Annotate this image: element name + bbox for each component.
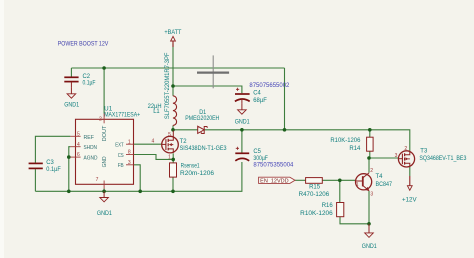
global label EN_12VDD (259, 177, 295, 184)
junction node L1/D1/T2 drain (171, 128, 175, 132)
svg-text:GND1: GND1 (97, 211, 113, 217)
transistor T4 BC847 (356, 168, 393, 197)
wire +BATT vertical (172, 44, 174, 87)
svg-text:FB: FB (118, 163, 124, 169)
svg-text:5: 5 (77, 131, 80, 137)
svg-text:5: 5 (168, 132, 171, 138)
wire BATT to C4 (173, 86, 242, 93)
svg-text:T4: T4 (376, 174, 384, 180)
svg-text:GND1: GND1 (235, 119, 251, 125)
junction node gnd FB (138, 190, 142, 194)
wire FB down (134, 165, 141, 192)
svg-text:C4: C4 (253, 91, 261, 97)
wire EXT to T2 gate (134, 143, 163, 145)
pin 7 GND (96, 156, 108, 188)
capacitor C3 (29, 160, 62, 173)
svg-text:1: 1 (168, 155, 171, 161)
resistor Rsense1 R20m-1206 (170, 163, 215, 177)
power +BATT (164, 30, 181, 47)
wire DOUT to rail (103, 68, 105, 114)
pin 8 CS (118, 150, 134, 159)
junction node BATT/C4/L1 (171, 84, 175, 88)
wire T3 source down (409, 167, 411, 176)
svg-text:SLF7055T-220M1R7-3PF: SLF7055T-220M1R7-3PF (165, 52, 171, 119)
svg-text:SIS438DN-T1-GE3: SIS438DN-T1-GE3 (180, 146, 228, 152)
svg-text:C2: C2 (83, 74, 91, 80)
transistor T3 SQ3468EV-T1_BE3 (395, 146, 467, 167)
svg-text:2: 2 (99, 117, 102, 123)
svg-text:PMEG2020EH: PMEG2020EH (185, 116, 219, 122)
resistor R14 R10K-1206 (330, 137, 373, 152)
inductor L1 (148, 52, 177, 125)
wire gnd rail (35, 162, 242, 191)
junction node R15/R16/T4 base (338, 179, 342, 183)
wire R14 bottom lead (369, 151, 371, 158)
svg-text:POWER BOOST 12V: POWER BOOST 12V (58, 41, 109, 48)
wire to T3 gate (369, 157, 399, 159)
svg-text:+12V: +12V (402, 197, 417, 203)
transistor T2 SIS438DN-T1-GE3 (152, 131, 228, 161)
wire L1 top lead (172, 86, 174, 96)
svg-text:R15: R15 (309, 185, 321, 191)
svg-text:4: 4 (152, 139, 155, 145)
cursor crosshair (197, 55, 229, 88)
wire R14 top lead (369, 130, 371, 137)
junction node rail drop (283, 128, 287, 132)
wire top rail V+ (71, 67, 284, 69)
wire U1 GND pin to rail (103, 189, 105, 192)
svg-text:SQ3468EV-T1_BE3: SQ3468EV-T1_BE3 (419, 156, 467, 162)
junction node R14 top (368, 128, 372, 132)
ground GND1 under T4 (362, 224, 378, 250)
svg-text:3: 3 (128, 160, 131, 166)
ground GND1 under C4 (235, 104, 251, 126)
wire EN label to R15 (295, 179, 306, 181)
pin 2 DOUT (99, 114, 108, 142)
junction node SHDN/AGND (67, 155, 71, 159)
wire T2 source to Rsense (172, 153, 174, 163)
svg-text:R10K-1206: R10K-1206 (300, 211, 333, 217)
svg-text:0.1µF: 0.1µF (46, 167, 61, 173)
pin 5 REF (70, 131, 94, 140)
wire AGND (69, 156, 71, 158)
power +12V (402, 176, 417, 203)
junction node gnd Rsense (171, 190, 175, 194)
svg-text:1: 1 (128, 139, 131, 145)
svg-text:Rsense1: Rsense1 (181, 163, 201, 169)
svg-text:SHDN: SHDN (84, 145, 98, 151)
svg-text:6: 6 (77, 152, 80, 158)
svg-text:U1: U1 (104, 107, 113, 113)
pin 1 EXT (115, 139, 133, 148)
ground GND1 under U1 (97, 191, 113, 217)
junction node T2 source/CS (171, 158, 175, 162)
svg-text:8: 8 (128, 150, 131, 156)
wire T4 collector up (368, 158, 370, 173)
pin 3 FB (118, 160, 134, 169)
svg-text:+BATT: +BATT (164, 30, 181, 36)
svg-text:0.1µF: 0.1µF (83, 81, 96, 87)
svg-text:3: 3 (370, 191, 373, 197)
svg-text:3: 3 (395, 153, 398, 159)
svg-text:R20m-1206: R20m-1206 (180, 171, 215, 177)
wire C2 top lead (70, 68, 72, 77)
svg-text:2: 2 (370, 168, 373, 174)
wire R15 to T4 base (322, 179, 355, 181)
svg-text:GND1: GND1 (64, 102, 80, 108)
pin 6 AGND (70, 152, 97, 161)
svg-text:L1: L1 (153, 109, 160, 115)
svg-text:GND: GND (102, 156, 108, 167)
wire Rsense bottom (172, 177, 174, 191)
svg-text:R14: R14 (349, 146, 361, 152)
junction node R16/T4 emitter/GND (367, 222, 371, 226)
op-amp U1 MAX1771ESA+ box (76, 119, 134, 184)
diode D1 PMEG2020EH (185, 110, 219, 134)
svg-text:AGND: AGND (84, 156, 98, 162)
wire C3 bottom to gnd rail (34, 169, 36, 191)
junction node gnd U1 (102, 190, 106, 194)
svg-text:875075355004: 875075355004 (253, 162, 294, 168)
svg-text:REF: REF (84, 135, 95, 141)
svg-text:C5: C5 (253, 149, 261, 155)
svg-text:7: 7 (96, 177, 99, 183)
svg-text:2: 2 (404, 146, 407, 152)
svg-text:875075655002: 875075655002 (249, 83, 290, 89)
svg-text:R16: R16 (322, 203, 334, 209)
wire CS to T2 source (134, 155, 174, 160)
wire output rail (173, 130, 410, 151)
wire R16 top lead (339, 180, 341, 202)
svg-text:EN_12VDD: EN_12VDD (260, 179, 289, 185)
svg-text:R470-1206: R470-1206 (299, 192, 330, 198)
svg-text:T3: T3 (420, 149, 428, 155)
resistor R15 R470-1206 (299, 178, 330, 199)
svg-text:R10K-1206: R10K-1206 (330, 138, 361, 144)
svg-text:MAX1771ESA+: MAX1771ESA+ (104, 113, 140, 119)
wire L1 bottom lead (172, 125, 174, 129)
capacitor C2 (64, 74, 95, 88)
junction node DOUT/rail (102, 66, 106, 70)
pin 4 SHDN (70, 142, 97, 151)
wire C5 top lead (241, 130, 243, 153)
junction node C5 top (240, 128, 244, 132)
svg-text:C3: C3 (46, 160, 54, 166)
svg-text:1: 1 (356, 182, 359, 188)
svg-text:GND1: GND1 (362, 244, 378, 250)
svg-text:4: 4 (77, 142, 80, 148)
svg-text:68µF: 68µF (253, 98, 267, 104)
wire REF to C3 (35, 136, 70, 162)
svg-text:T2: T2 (180, 139, 188, 145)
capacitor C5 (polarized) (235, 147, 268, 162)
resistor R16 R10K-1206 (300, 203, 344, 217)
wire top rail down to output rail (284, 68, 286, 130)
svg-text:300µF: 300µF (253, 156, 268, 162)
capacitor C4 (polarized) (235, 88, 267, 104)
junction node gnd SHDN (67, 190, 71, 194)
junction node R14/T4 collector/T3 gate (367, 156, 371, 160)
wire T4 emitter down (368, 191, 370, 224)
svg-text:BC847: BC847 (376, 182, 393, 188)
svg-text:DOUT: DOUT (102, 125, 108, 141)
svg-text:CS: CS (118, 153, 124, 159)
ground GND1 under C2 (64, 88, 80, 109)
wire R16 bottom to emitter (340, 217, 369, 224)
wire SHDN down (69, 147, 71, 192)
svg-text:EXT: EXT (115, 143, 124, 149)
